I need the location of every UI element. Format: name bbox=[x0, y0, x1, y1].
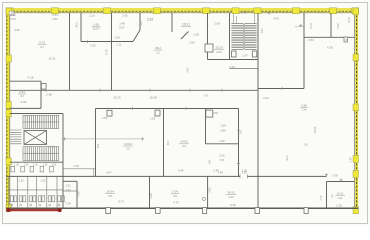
wall x304 bbox=[303, 13, 305, 89]
inner edge line of left wall bbox=[9, 13, 11, 211]
svg-text:2.52: 2.52 bbox=[10, 17, 16, 21]
svg-text:4.75: 4.75 bbox=[173, 201, 179, 205]
svg-text:3.78: 3.78 bbox=[332, 173, 338, 177]
column block left wall 6 bbox=[6, 205, 11, 212]
small steps left of elevator bbox=[10, 130, 21, 144]
small room mid y191 bbox=[63, 190, 77, 192]
svg-text:2.10: 2.10 bbox=[89, 14, 95, 18]
column block top wall 2 bbox=[52, 8, 59, 14]
svg-text:8.9: 8.9 bbox=[166, 141, 170, 145]
svg-text:С3: С3 bbox=[126, 147, 130, 151]
svg-text:1.30: 1.30 bbox=[24, 164, 29, 167]
svg-text:2.52: 2.52 bbox=[90, 43, 96, 47]
svg-text:2.11: 2.11 bbox=[116, 42, 122, 46]
svg-text:2.08: 2.08 bbox=[193, 32, 199, 36]
column block right wall 4 bbox=[353, 156, 359, 163]
small circle mark bbox=[202, 197, 205, 200]
svg-text:2.42: 2.42 bbox=[77, 191, 81, 197]
svg-text:2.19: 2.19 bbox=[336, 204, 342, 208]
svg-text:2.06: 2.06 bbox=[189, 41, 195, 45]
toilet cell dividers bbox=[8, 176, 10, 208]
svg-text:8.73: 8.73 bbox=[118, 199, 124, 203]
wall x331 bbox=[330, 13, 332, 37]
column block top wall 5 bbox=[203, 8, 210, 14]
svg-text:36.2: 36.2 bbox=[155, 46, 161, 50]
wall x326.5 bbox=[326, 182, 328, 209]
yellow left wall band bbox=[6, 8, 10, 212]
toilet fixtures bbox=[10, 196, 13, 202]
svg-text:1.20: 1.20 bbox=[40, 178, 46, 182]
corridor wall y90.3 bbox=[10, 89, 258, 91]
svg-text:1.77: 1.77 bbox=[319, 195, 323, 201]
svg-text:С10: С10 bbox=[228, 195, 234, 199]
svg-text:1.09: 1.09 bbox=[220, 123, 226, 127]
hatched pilaster top-left corner bbox=[9, 11, 14, 16]
bottom wall bbox=[6, 207, 358, 209]
main middle wall y108.5 bbox=[96, 108, 239, 110]
svg-text:14.95: 14.95 bbox=[180, 140, 188, 144]
stair landing door box right bbox=[252, 51, 256, 57]
svg-text:14.21: 14.21 bbox=[313, 126, 317, 134]
svg-text:8.9: 8.9 bbox=[96, 144, 100, 148]
svg-text:2.52: 2.52 bbox=[52, 17, 58, 21]
svg-text:10.94: 10.94 bbox=[124, 142, 132, 146]
toilet mid wall y189.9 bbox=[8, 189, 63, 191]
svg-text:1.9: 1.9 bbox=[343, 38, 347, 42]
svg-text:1.20: 1.20 bbox=[18, 178, 24, 182]
dimension line top right bbox=[295, 26, 304, 28]
svg-text:С4: С4 bbox=[182, 144, 186, 148]
svg-text:26.23: 26.23 bbox=[113, 95, 121, 99]
svg-text:1.08: 1.08 bbox=[114, 35, 120, 39]
dashed outer edge left bbox=[6, 8, 8, 211]
wall x111.5 bbox=[111, 13, 113, 90]
staircase top : treads bbox=[231, 24, 256, 50]
door box x41.5 bbox=[41, 84, 46, 90]
stair left wall x229.5 bbox=[229, 13, 231, 60]
svg-text:15.25: 15.25 bbox=[215, 45, 223, 49]
dimension line y138.9 bbox=[64, 138, 144, 140]
svg-text:1.30: 1.30 bbox=[14, 164, 19, 167]
wall x172 bbox=[171, 13, 173, 32]
svg-text:1.48: 1.48 bbox=[218, 170, 224, 174]
long wall x258 bbox=[257, 13, 259, 208]
svg-text:С1: С1 bbox=[156, 51, 160, 55]
door box x155 bbox=[155, 110, 160, 116]
chamfer diagonal room3 bbox=[181, 32, 189, 40]
svg-text:5.28: 5.28 bbox=[147, 17, 153, 21]
stair core bottom wall y162.2 bbox=[10, 161, 63, 163]
column block right wall 1 bbox=[353, 8, 359, 15]
svg-text:15.87: 15.87 bbox=[92, 27, 100, 31]
dashed outer edge top bbox=[6, 10, 359, 12]
svg-text:0.6: 0.6 bbox=[240, 130, 243, 134]
svg-text:1.52: 1.52 bbox=[65, 184, 71, 188]
column block top wall 4 bbox=[154, 8, 161, 14]
svg-text:2.98: 2.98 bbox=[46, 92, 52, 96]
svg-text:0.55: 0.55 bbox=[52, 164, 57, 167]
dashed outer edge right bbox=[356, 8, 358, 214]
dimension ticks bbox=[86, 40, 89, 43]
svg-text:0.86: 0.86 bbox=[220, 128, 226, 132]
wall y168.8 bbox=[63, 168, 96, 170]
svg-text:15.38: 15.38 bbox=[149, 95, 157, 99]
red highlighted wall bottom-left bbox=[9, 209, 60, 211]
small room wall y143.8 bbox=[206, 143, 239, 145]
svg-text:10.11: 10.11 bbox=[336, 191, 343, 195]
svg-text:4.67: 4.67 bbox=[139, 20, 143, 26]
column block right wall 6 bbox=[353, 207, 359, 214]
svg-text:0.40: 0.40 bbox=[229, 65, 235, 69]
stair core top wall y113.5 bbox=[10, 113, 63, 115]
svg-text:4.9: 4.9 bbox=[208, 160, 212, 164]
svg-text:1.30: 1.30 bbox=[43, 164, 48, 167]
svg-text:3.52: 3.52 bbox=[336, 23, 340, 29]
svg-text:С6: С6 bbox=[304, 142, 308, 146]
stair top bottom wall y59.5 bbox=[208, 59, 259, 61]
bottom block top wall y176.4 left bbox=[6, 175, 240, 177]
svg-text:С9: С9 bbox=[173, 194, 177, 198]
svg-text:4.78: 4.78 bbox=[73, 164, 79, 168]
svg-text:2.0: 2.0 bbox=[331, 194, 334, 198]
staircase top : mid stringers bbox=[242, 24, 244, 50]
svg-text:С8: С8 bbox=[108, 194, 112, 198]
svg-text:2.44: 2.44 bbox=[149, 193, 153, 199]
svg-text:16.91: 16.91 bbox=[182, 23, 190, 27]
svg-text:34.52: 34.52 bbox=[227, 190, 235, 194]
svg-text:5.07: 5.07 bbox=[119, 25, 125, 29]
wall x163.5 bbox=[163, 109, 165, 177]
elevator shaft box with X bbox=[24, 131, 47, 145]
svg-text:3.43: 3.43 bbox=[273, 16, 279, 20]
svg-text:16.94: 16.94 bbox=[106, 189, 114, 193]
bottom block top wall y176.4 right bbox=[248, 175, 327, 177]
wall x238.5 bbox=[238, 109, 240, 177]
column block top wall 3 bbox=[104, 8, 111, 14]
svg-text:2.34: 2.34 bbox=[349, 157, 353, 163]
door box x107 bbox=[107, 110, 112, 116]
closet box x205 bbox=[205, 44, 213, 52]
column block left wall 1 bbox=[6, 8, 11, 15]
wall x93 short bbox=[93, 169, 95, 177]
column block left wall 3 bbox=[6, 102, 11, 109]
svg-text:5.79: 5.79 bbox=[105, 49, 109, 55]
svg-text:С1: С1 bbox=[40, 45, 44, 49]
small room top y181.3 bbox=[63, 180, 77, 182]
svg-text:2+4л: 2+4л bbox=[49, 145, 56, 149]
yellow top wall band bbox=[6, 8, 359, 13]
column block right wall 3 bbox=[353, 104, 359, 111]
column block top wall 6 bbox=[232, 8, 239, 14]
svg-text:2.92: 2.92 bbox=[207, 187, 211, 193]
svg-text:0.9: 0.9 bbox=[204, 95, 208, 98]
svg-text:7.04: 7.04 bbox=[172, 189, 178, 193]
svg-text:2.58: 2.58 bbox=[241, 10, 247, 14]
wall x81 bbox=[80, 13, 82, 42]
svg-text:2.94: 2.94 bbox=[65, 188, 71, 192]
svg-text:2.53: 2.53 bbox=[150, 116, 156, 120]
svg-text:6.30: 6.30 bbox=[327, 46, 333, 50]
svg-text:4.73: 4.73 bbox=[309, 23, 313, 29]
wall x95.5 bbox=[95, 109, 97, 177]
corridor wall right segment y88.5 bbox=[258, 88, 304, 90]
wall top-right rooms bottom y37.3 bbox=[304, 36, 355, 38]
svg-text:2.04: 2.04 bbox=[216, 50, 222, 54]
column block top wall 1 bbox=[6, 8, 13, 14]
staircase top : entry stubs bbox=[234, 14, 255, 24]
column block left wall 2 bbox=[6, 55, 11, 62]
svg-text:7.54: 7.54 bbox=[65, 201, 71, 205]
wall x69.5 bbox=[69, 13, 71, 90]
wall x41 bbox=[40, 81, 42, 108]
column block right wall 2 bbox=[353, 54, 359, 61]
column block top wall 8 bbox=[293, 8, 300, 14]
wall x149.5 bbox=[149, 176, 151, 208]
svg-text:3.50: 3.50 bbox=[308, 38, 314, 42]
stair landing door box left bbox=[232, 51, 237, 57]
wall x77 bbox=[76, 181, 78, 208]
svg-text:4.67: 4.67 bbox=[186, 67, 190, 73]
svg-text:9.73: 9.73 bbox=[39, 40, 45, 44]
stair landing line y68.5 bbox=[230, 68, 259, 70]
door gap ticks y176.4 bbox=[239, 175, 241, 179]
svg-text:2.26: 2.26 bbox=[241, 170, 247, 174]
door boxes below bottom wall bbox=[106, 208, 111, 214]
door box x206 bbox=[206, 110, 213, 117]
svg-text:2.90: 2.90 bbox=[122, 13, 128, 17]
column block left wall 4 bbox=[6, 110, 11, 117]
svg-text:2.24: 2.24 bbox=[263, 96, 269, 100]
room C2 bottom wall y108.4 bbox=[10, 107, 41, 109]
svg-text:2.08: 2.08 bbox=[214, 21, 220, 25]
column block right wall 5 bbox=[353, 171, 359, 178]
svg-text:4.44: 4.44 bbox=[178, 169, 184, 173]
svg-text:4.74: 4.74 bbox=[347, 17, 351, 23]
svg-text:4.18: 4.18 bbox=[28, 76, 34, 80]
svg-text:2.54: 2.54 bbox=[102, 116, 108, 120]
wall room1-2 bottom y41.5 bbox=[81, 41, 133, 43]
area label underline bars bbox=[92, 26, 101, 28]
svg-text:2.05: 2.05 bbox=[219, 154, 225, 158]
svg-text:4.67: 4.67 bbox=[106, 171, 112, 175]
column block left wall 5 bbox=[6, 158, 11, 165]
svg-text:0.82: 0.82 bbox=[213, 112, 218, 115]
svg-text:3.99: 3.99 bbox=[21, 100, 27, 104]
wall x63 bbox=[62, 114, 64, 209]
svg-text:12.31: 12.31 bbox=[48, 56, 56, 60]
wall x140 bbox=[139, 13, 141, 30]
door tick on top-right wall bbox=[344, 37, 348, 42]
inner edge line of right wall bbox=[353, 13, 355, 213]
column block top wall 9 bbox=[330, 8, 337, 14]
room C2 top wall y81.2 bbox=[10, 80, 41, 82]
toilet door boxes row bbox=[11, 166, 15, 172]
svg-text:6.93: 6.93 bbox=[14, 28, 20, 32]
wall x205.5 bbox=[205, 109, 207, 144]
inner edge line of top wall bbox=[6, 12, 359, 14]
svg-text:1.30: 1.30 bbox=[33, 164, 38, 167]
svg-text:26.2: 26.2 bbox=[75, 22, 79, 28]
svg-text:1.97: 1.97 bbox=[260, 28, 264, 34]
svg-text:2.42: 2.42 bbox=[219, 139, 225, 143]
svg-text:8.40: 8.40 bbox=[230, 203, 236, 207]
svg-text:17а: 17а bbox=[302, 107, 307, 111]
yellow right wall band bbox=[355, 8, 358, 214]
bottom-right room top y181.5 bbox=[327, 181, 355, 183]
column block top wall 10 bbox=[352, 8, 359, 14]
svg-text:1.97: 1.97 bbox=[242, 53, 248, 57]
svg-text:9.54: 9.54 bbox=[19, 90, 25, 94]
chamfer diagonal room2 bbox=[133, 30, 140, 42]
svg-text:5.8: 5.8 bbox=[220, 158, 224, 162]
svg-text:41.6: 41.6 bbox=[285, 155, 289, 161]
svg-text:С2: С2 bbox=[20, 94, 24, 98]
svg-text:С11: С11 bbox=[338, 196, 343, 200]
staircase left : upper flight bbox=[23, 115, 59, 128]
wall x207.6 bbox=[207, 176, 209, 208]
wall x207.5 bbox=[207, 13, 209, 60]
staircase left : lower flight bbox=[23, 147, 59, 161]
column block top wall 7 bbox=[254, 8, 261, 14]
